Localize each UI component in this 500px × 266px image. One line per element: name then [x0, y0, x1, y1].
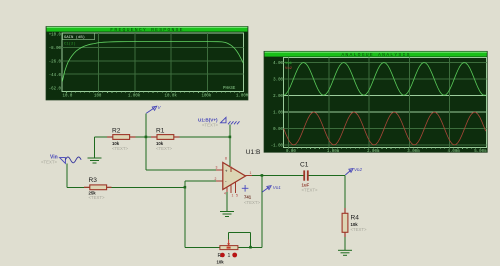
potentiometer RV1: [217, 240, 238, 265]
svg-text:<TEXT>: <TEXT>: [302, 188, 318, 193]
svg-text:<TEXT>: <TEXT>: [89, 195, 105, 200]
G2 red sine trace Vo2: [284, 112, 486, 145]
capacitor C1: [300, 162, 318, 193]
junction node A: [145, 136, 148, 139]
svg-text:4.00: 4.00: [273, 62, 283, 66]
svg-text:+: +: [225, 169, 228, 174]
power pin stubs below: [230, 184, 232, 193]
svg-text:Vo2: Vo2: [285, 67, 293, 71]
wire: output node down to pot right: [261, 176, 263, 248]
svg-text:<TEXT>: <TEXT>: [244, 200, 260, 205]
voltage probe Vo1 (op-amp output): [262, 185, 281, 192]
wire: V+ rail down to op-amp top pin: [229, 125, 231, 167]
graph window G1 FREQUENCY RESPONSE: [46, 27, 248, 101]
svg-text:10.0k: 10.0k: [165, 94, 178, 99]
svg-text:2: 2: [215, 177, 217, 181]
resistor R3: [84, 177, 112, 200]
voltage probe Vo2 (after C1): [345, 167, 362, 175]
G2 green sine trace Vo1: [284, 63, 486, 96]
svg-text:<TEXT>: <TEXT>: [351, 227, 367, 232]
svg-text:+10.0: +10.0: [49, 34, 62, 38]
junction - input node: [184, 186, 187, 189]
svg-text:1: 1: [250, 171, 252, 175]
svg-text:ANALOGUE ANALYSIS: ANALOGUE ANALYSIS: [341, 52, 410, 58]
wire: pot wiper loop: [228, 232, 230, 239]
op-amp U1:B: [215, 149, 262, 205]
svg-text:-44.0: -44.0: [49, 74, 62, 78]
resistor R4 (vertical): [342, 208, 367, 237]
svg-text:100k: 100k: [202, 94, 212, 99]
svg-text:<TEXT>: <TEXT>: [156, 146, 172, 151]
svg-text:-62.0: -62.0: [49, 87, 62, 91]
svg-text:4: 4: [224, 192, 226, 196]
svg-text:<TEXT>: <TEXT>: [202, 122, 218, 127]
svg-text:R3: R3: [89, 177, 98, 184]
svg-text:2.00m: 2.00m: [367, 150, 380, 154]
svg-text:R1: R1: [156, 128, 165, 135]
svg-text:Vo1: Vo1: [285, 62, 293, 66]
svg-text:5.00m: 5.00m: [474, 150, 487, 154]
svg-text:1: 1: [228, 253, 231, 259]
svg-text:0.00: 0.00: [273, 128, 283, 132]
resistor R1: [151, 128, 180, 151]
G1 y axis labels: [49, 34, 62, 92]
svg-text:R2: R2: [112, 128, 121, 135]
wire: Vin source down and right to R3: [66, 164, 68, 188]
G1 x axis labels: [63, 94, 249, 99]
svg-text:C1: C1: [300, 162, 309, 169]
wire: C1 to Vout node to R4: [309, 175, 346, 177]
svg-text:1.00M: 1.00M: [236, 95, 249, 99]
wire: op-amp output to C1: [246, 175, 304, 177]
resistor R2: [107, 128, 136, 151]
wire: node A down to + input: [145, 137, 147, 170]
svg-text:<TEXT>: <TEXT>: [41, 159, 57, 164]
svg-text:3.00m: 3.00m: [407, 150, 420, 154]
G1 gain trace curve: [62, 42, 243, 82]
svg-text:-26.0: -26.0: [49, 61, 62, 65]
svg-text:10.0: 10.0: [63, 95, 73, 99]
ground (R4): [338, 250, 352, 255]
voltage probe V (bias node): [146, 105, 161, 113]
ground (bias, left of R2): [88, 158, 102, 163]
svg-text:8: 8: [225, 157, 227, 161]
G2 grid: [284, 58, 487, 148]
svg-text:10k: 10k: [217, 260, 225, 265]
svg-text:1.00k: 1.00k: [128, 94, 141, 99]
svg-text:1.00m: 1.00m: [327, 150, 340, 154]
svg-text:C1(2): C1(2): [64, 41, 76, 46]
G2 axis ticks: [288, 148, 480, 150]
svg-text:FREQUENCY RESPONSE: FREQUENCY RESPONSE: [110, 27, 183, 33]
G2 y axis labels: [271, 62, 284, 149]
wire: - input node down to pot: [184, 187, 186, 247]
wire: ground stub left of R2: [94, 137, 96, 158]
graph window G2 ANALOGUE ANALYSIS: [264, 51, 487, 152]
svg-text:Vo1: Vo1: [273, 185, 281, 190]
junction pot wiper: [249, 246, 252, 249]
wire: R3 to - input node: [106, 186, 186, 188]
svg-text:PHASE: PHASE: [223, 87, 236, 91]
wire: probe V stub above node A: [145, 114, 147, 138]
generator Vin: [41, 154, 81, 164]
svg-text:2.00: 2.00: [273, 95, 283, 99]
G1 axis ticks: [67, 92, 240, 94]
svg-text:<TEXT>: <TEXT>: [112, 146, 128, 151]
G2 x axis labels: [286, 150, 487, 154]
ground (op-amp): [220, 212, 234, 217]
junction V+ rail: [229, 136, 232, 139]
svg-text:-1.00: -1.00: [271, 145, 284, 149]
junction output node: [261, 174, 264, 177]
svg-text:-8.00: -8.00: [49, 47, 62, 51]
svg-text:GAIN (dB): GAIN (dB): [64, 35, 85, 40]
power terminal U1:B(V+): [198, 117, 240, 127]
svg-text:0.00: 0.00: [286, 150, 296, 154]
svg-text:100: 100: [94, 95, 102, 99]
svg-text:3: 3: [216, 166, 218, 170]
G1 plot frame: [62, 33, 244, 92]
G2 plot frame and strips: [284, 58, 487, 148]
blue marker star: [242, 185, 249, 192]
wire: op-amp pin4 to ground: [226, 187, 228, 211]
svg-text:U1:B: U1:B: [246, 149, 261, 156]
svg-text:5: 5: [236, 194, 238, 198]
pin numbers: [215, 157, 252, 198]
wiper arrow: [228, 240, 230, 245]
wire: bias rail R2-R1 horizontal: [95, 136, 231, 138]
wire: R4 bottom to ground: [344, 232, 346, 250]
svg-text:4.00m: 4.00m: [448, 150, 461, 154]
svg-text:1.00: 1.00: [273, 112, 283, 116]
G1 grid: [62, 33, 244, 92]
svg-text:1: 1: [232, 194, 234, 198]
svg-text:3.00: 3.00: [273, 79, 283, 83]
svg-text:R4: R4: [351, 215, 360, 222]
G1 axis title GAIN (dB): [63, 33, 236, 91]
svg-text:Vo2: Vo2: [354, 167, 362, 172]
